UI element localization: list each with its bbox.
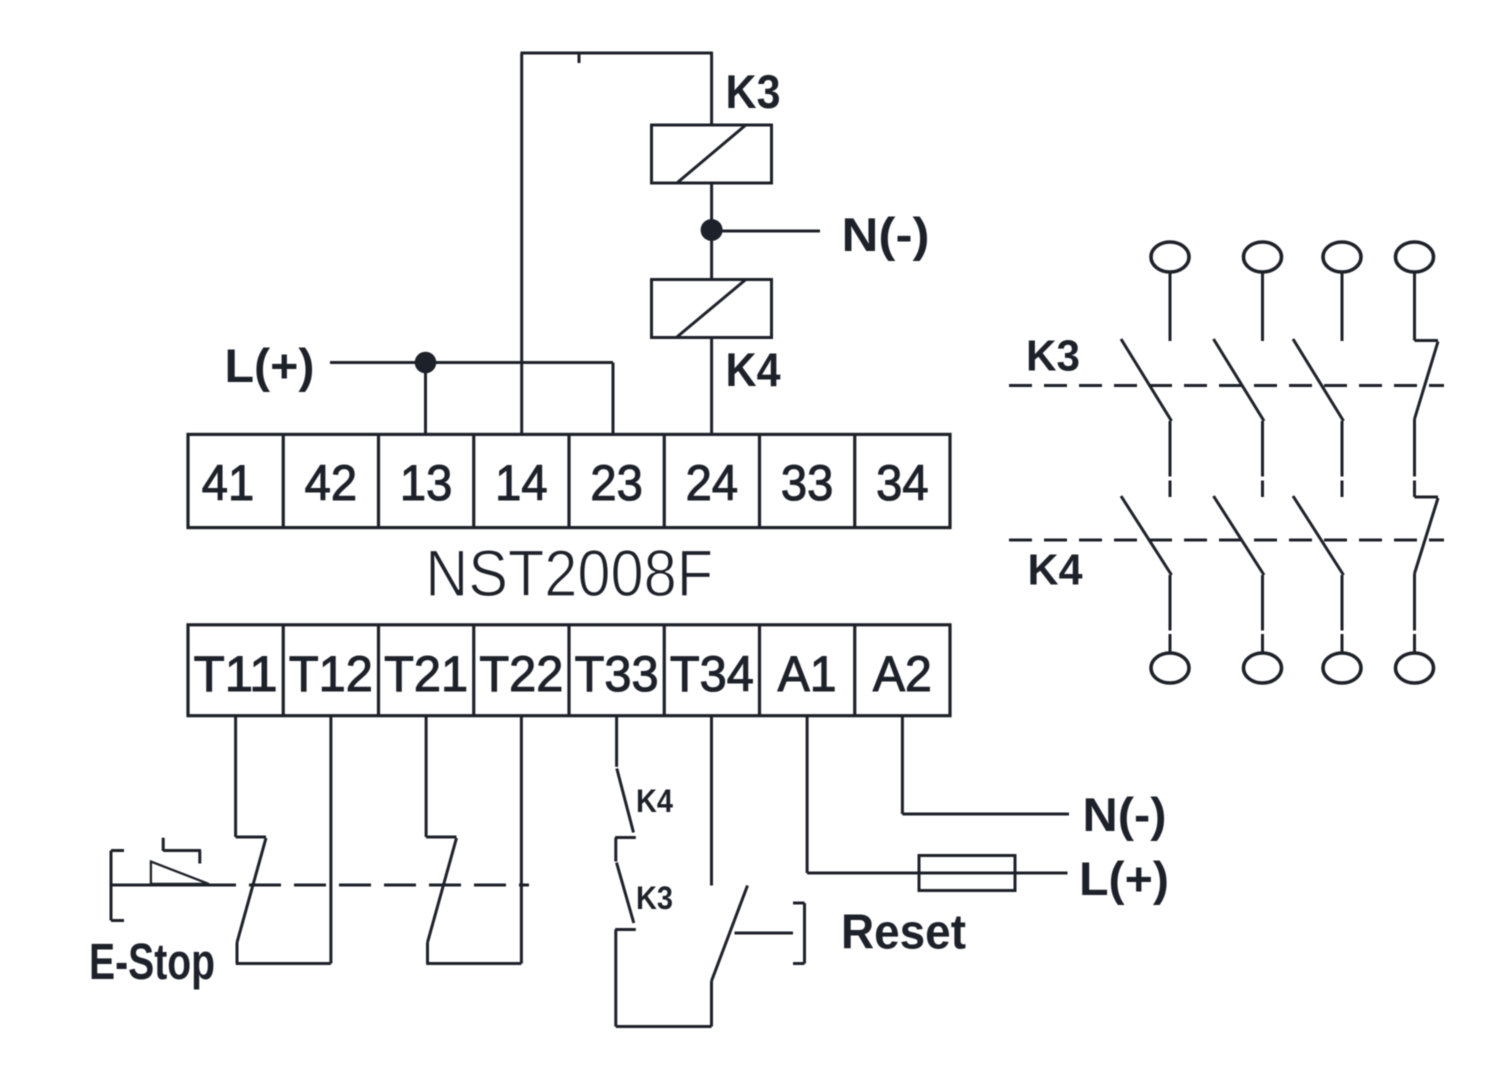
svg-text:N(-): N(-) <box>1083 788 1167 841</box>
svg-text:N(-): N(-) <box>842 208 930 261</box>
svg-text:K4: K4 <box>726 343 781 396</box>
svg-text:24: 24 <box>686 455 738 511</box>
svg-text:T21: T21 <box>384 646 468 702</box>
svg-text:A2: A2 <box>873 646 932 702</box>
svg-text:NST2008F: NST2008F <box>425 536 713 610</box>
svg-text:L(+): L(+) <box>1079 852 1169 905</box>
svg-text:L(+): L(+) <box>225 339 315 392</box>
svg-text:13: 13 <box>400 455 452 511</box>
svg-text:T34: T34 <box>670 646 754 702</box>
svg-text:T33: T33 <box>575 646 659 702</box>
svg-text:41: 41 <box>202 455 254 511</box>
svg-text:T11: T11 <box>194 646 278 702</box>
svg-text:K4: K4 <box>1028 546 1084 595</box>
svg-text:T12: T12 <box>289 646 373 702</box>
svg-text:K4: K4 <box>636 783 673 819</box>
svg-text:33: 33 <box>781 455 833 511</box>
svg-text:K3: K3 <box>1026 332 1080 381</box>
svg-text:34: 34 <box>876 455 928 511</box>
svg-text:23: 23 <box>590 455 642 511</box>
svg-text:14: 14 <box>495 455 547 511</box>
svg-text:Reset: Reset <box>841 906 966 960</box>
svg-text:T22: T22 <box>479 646 563 702</box>
svg-text:E-Stop: E-Stop <box>89 933 215 990</box>
svg-text:K3: K3 <box>726 65 781 118</box>
svg-text:A1: A1 <box>778 646 837 702</box>
svg-text:42: 42 <box>305 455 357 511</box>
svg-text:K3: K3 <box>636 880 673 916</box>
